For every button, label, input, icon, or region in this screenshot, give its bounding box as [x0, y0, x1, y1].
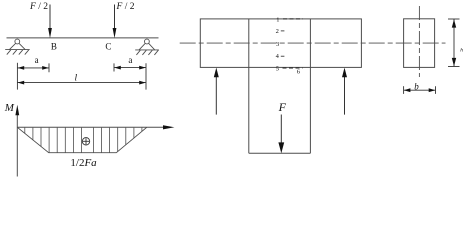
web bottom edge: [249, 152, 311, 154]
svg-text:F / 2: F / 2: [116, 2, 135, 12]
moment hatch lines: [25, 128, 142, 153]
dimension b line: [404, 89, 436, 91]
moment vertical axis: [16, 112, 18, 177]
dimension extension tick at B: [48, 63, 50, 72]
beam line AB-CD: [7, 37, 159, 39]
svg-text:h: h: [460, 48, 463, 54]
svg-text:6: 6: [297, 68, 301, 75]
dimension b tick left: [403, 86, 405, 94]
cross-section rectangle: [404, 19, 435, 68]
dimension h tick top: [448, 18, 460, 20]
moment horizontal axis: [17, 126, 165, 128]
svg-text:C: C: [105, 41, 111, 51]
reaction arrow right: [344, 76, 346, 115]
svg-text:3: 3: [276, 41, 279, 48]
centerline horizontal (middle and right figures): [180, 42, 446, 44]
cross-section vertical centerline: [418, 6, 420, 77]
svg-text:F / 2: F / 2: [29, 2, 48, 12]
svg-text:l: l: [75, 73, 78, 83]
web right edge: [309, 19, 311, 153]
support left (pin): [5, 39, 30, 55]
moment trapezoid outline: [17, 127, 147, 152]
svg-text:4: 4: [276, 53, 280, 60]
svg-text:F: F: [278, 100, 287, 114]
dimension extension tick at C: [113, 63, 115, 71]
support right (pin): [135, 39, 159, 55]
dimension h tick bottom: [448, 66, 460, 68]
force F/2 at C: [114, 5, 116, 30]
svg-text:1/2Fa: 1/2Fa: [70, 157, 97, 169]
dimension h line: [453, 19, 455, 67]
svg-text:b: b: [414, 81, 419, 91]
svg-text:B: B: [51, 41, 57, 51]
dimension extension tick left: [16, 63, 18, 90]
dimension b tick right: [435, 86, 437, 94]
svg-text:a: a: [35, 55, 39, 65]
positive sign circle-plus: [82, 138, 89, 145]
flange rectangle (side view): [200, 19, 361, 68]
dimension a right: [114, 67, 146, 69]
force F/2 at B: [49, 5, 51, 30]
dimension extension tick right: [145, 63, 147, 89]
web left edge: [248, 19, 250, 153]
svg-text:M: M: [4, 102, 15, 114]
reaction arrow left: [215, 76, 217, 115]
dimension l (span): [17, 82, 146, 84]
dimension a left: [17, 67, 49, 69]
force F arrow: [280, 115, 282, 145]
svg-text:1: 1: [276, 16, 279, 23]
svg-text:2: 2: [276, 28, 279, 35]
svg-text:5: 5: [276, 66, 279, 73]
svg-text:a: a: [128, 55, 132, 65]
